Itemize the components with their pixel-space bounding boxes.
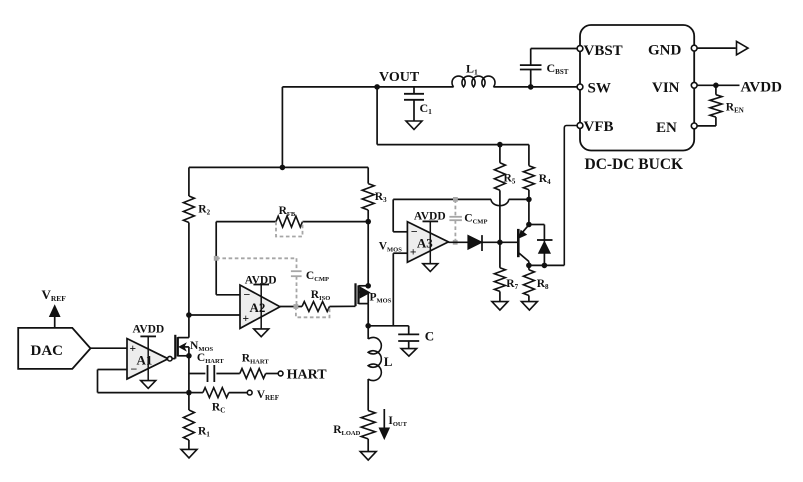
svg-text:A1: A1 (137, 352, 153, 367)
svg-text:L: L (384, 354, 393, 369)
svg-text:C: C (425, 329, 434, 344)
svg-text:DC-DC BUCK: DC-DC BUCK (585, 156, 684, 173)
svg-text:VBST: VBST (584, 43, 623, 59)
svg-text:VFB: VFB (584, 119, 614, 135)
svg-text:EN: EN (656, 120, 677, 136)
svg-text:VIN: VIN (652, 80, 680, 96)
svg-text:AVDD: AVDD (414, 210, 446, 222)
svg-text:AVDD: AVDD (245, 275, 277, 287)
svg-text:SW: SW (588, 81, 611, 97)
svg-text:AVDD: AVDD (741, 80, 783, 96)
svg-text:+: + (130, 343, 137, 355)
svg-text:+: + (410, 247, 417, 259)
svg-text:VOUT: VOUT (379, 70, 420, 85)
svg-text:+: + (243, 313, 250, 325)
svg-text:DAC: DAC (31, 343, 64, 359)
svg-text:HART: HART (287, 368, 328, 383)
svg-text:AVDD: AVDD (133, 324, 165, 336)
svg-text:A2: A2 (250, 300, 266, 315)
svg-text:GND: GND (648, 43, 682, 59)
